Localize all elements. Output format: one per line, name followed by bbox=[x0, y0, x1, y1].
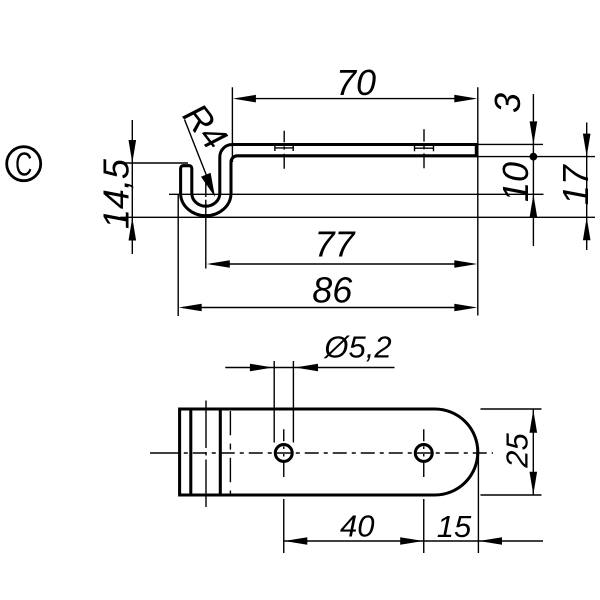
svg-text:C: C bbox=[15, 147, 32, 184]
svg-text:Ø5,2: Ø5,2 bbox=[323, 330, 391, 365]
svg-text:70: 70 bbox=[336, 62, 376, 103]
svg-text:3: 3 bbox=[487, 93, 528, 113]
svg-text:14,5: 14,5 bbox=[95, 158, 136, 229]
svg-text:25: 25 bbox=[500, 433, 535, 469]
svg-text:40: 40 bbox=[340, 509, 374, 544]
svg-text:77: 77 bbox=[314, 223, 356, 264]
svg-text:17: 17 bbox=[555, 163, 596, 205]
svg-text:15: 15 bbox=[437, 509, 472, 544]
svg-text:86: 86 bbox=[312, 270, 353, 311]
svg-text:10: 10 bbox=[495, 162, 536, 202]
